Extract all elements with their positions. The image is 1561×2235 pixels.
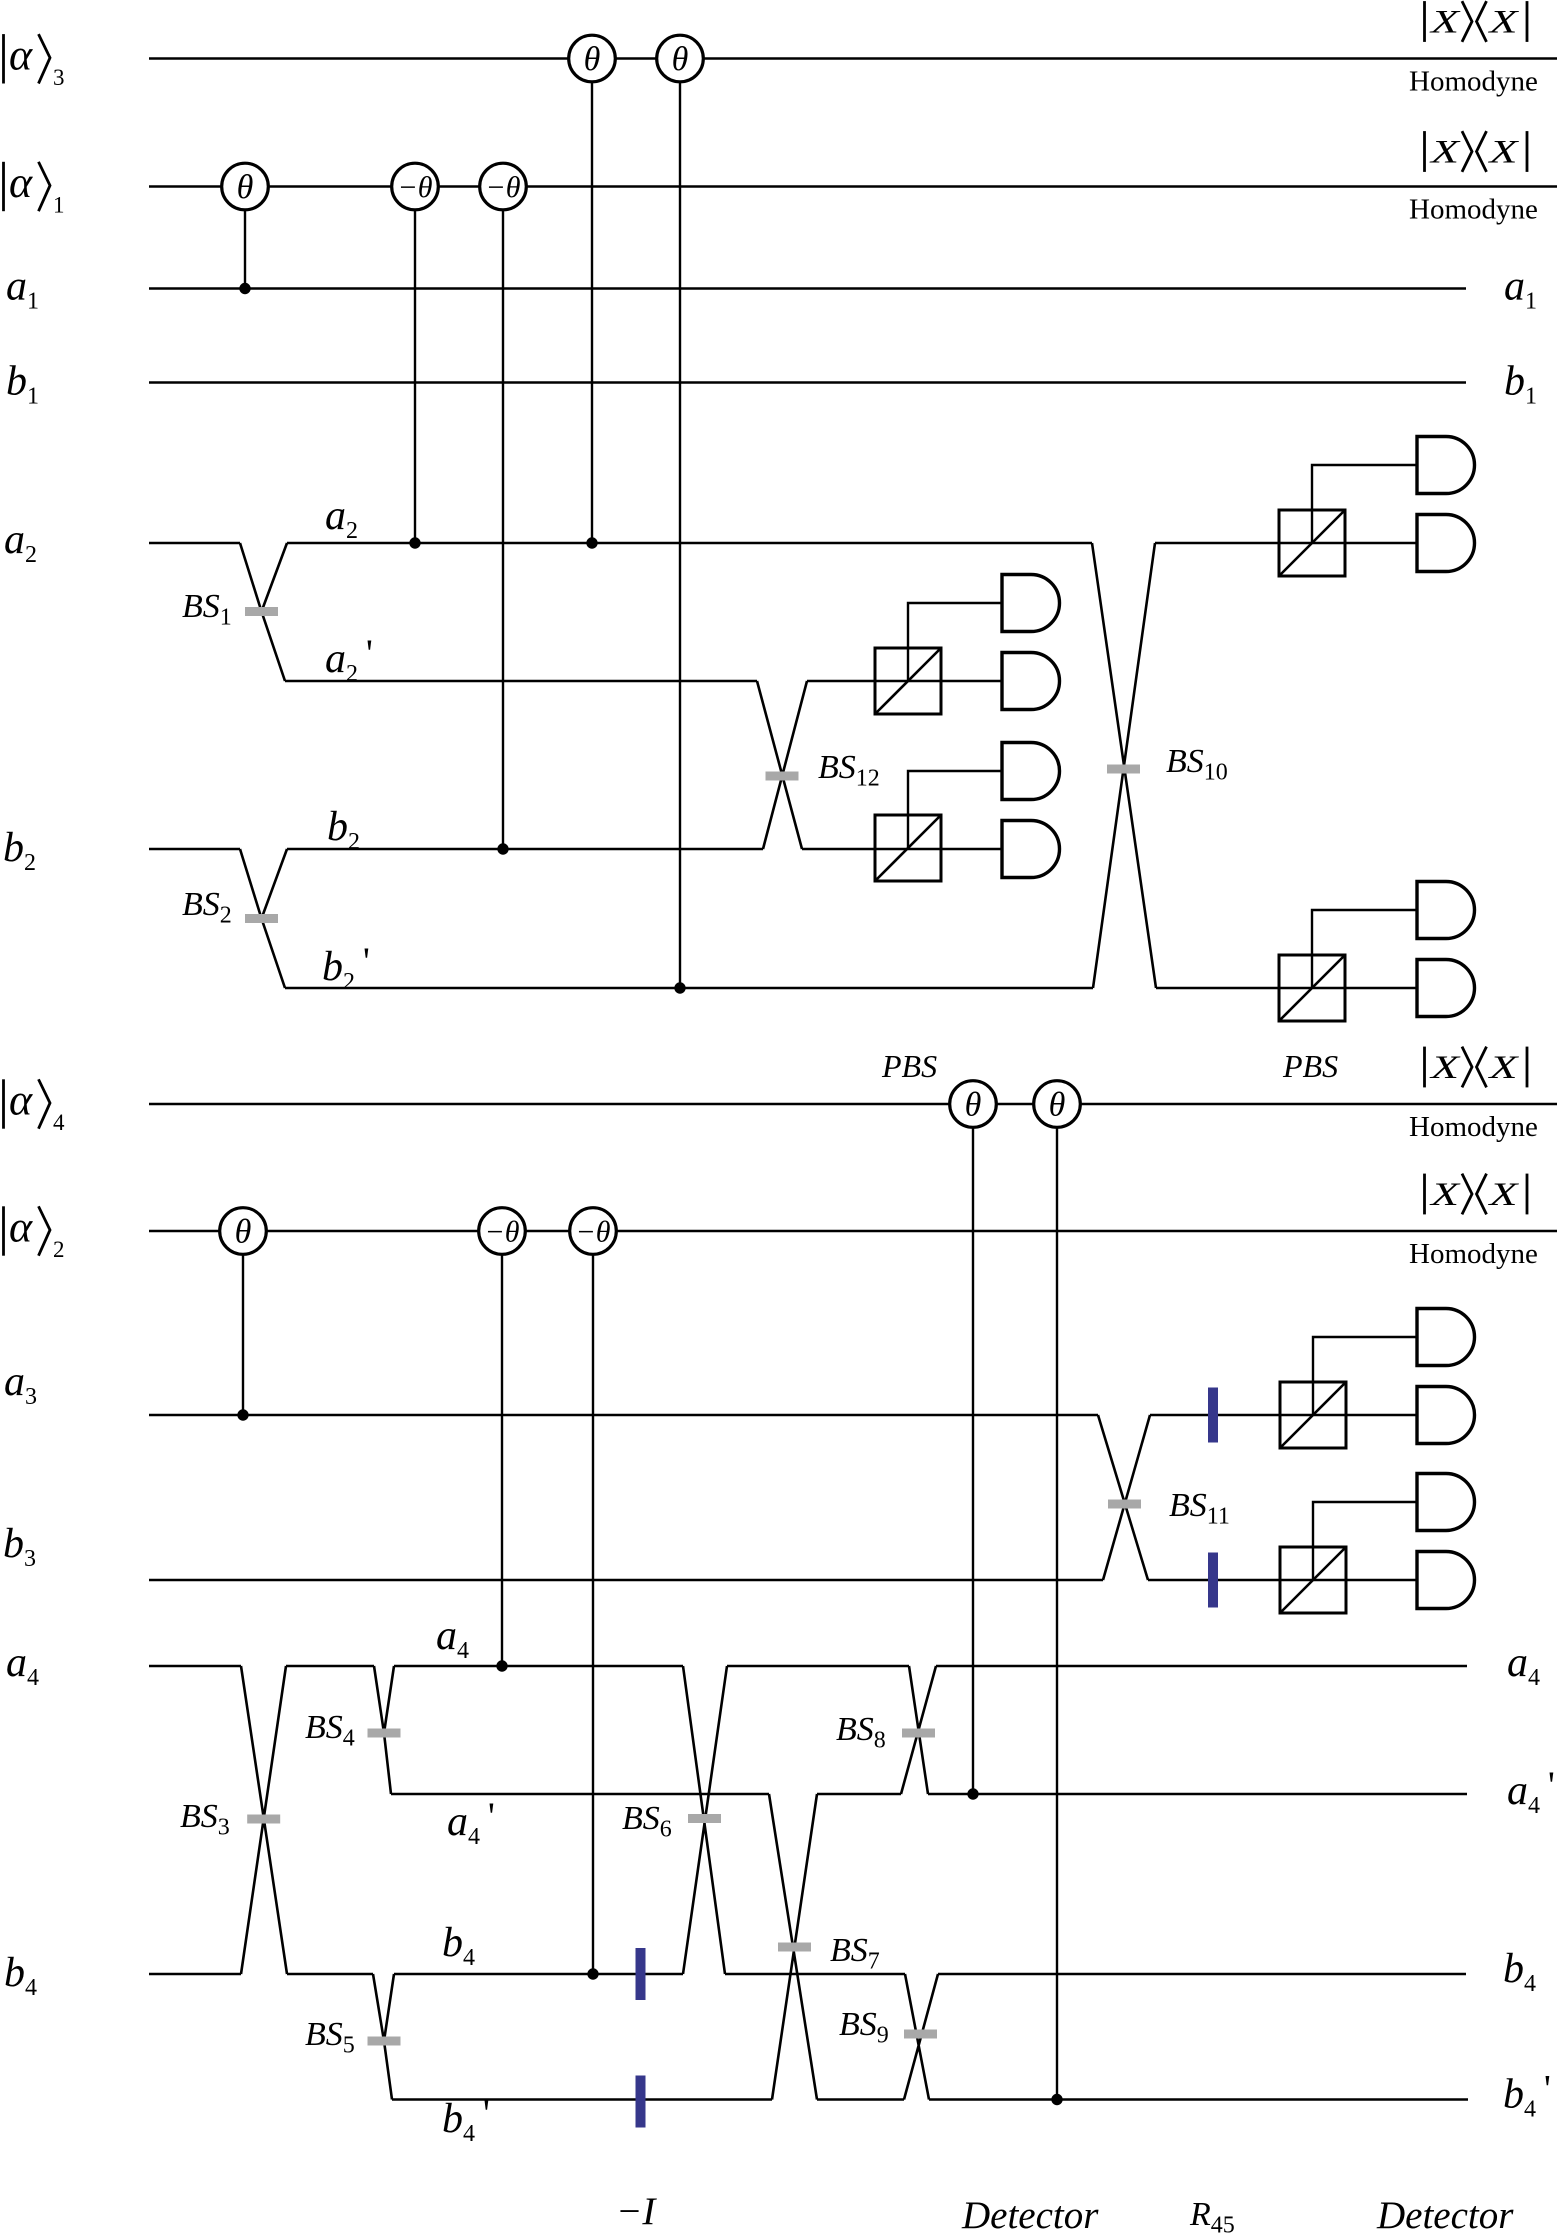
- label |X><X| (alpha1): [1425, 131, 1528, 172]
- polarizing beam splitter PBS (a2 arm): [1279, 510, 1345, 576]
- phase shifter theta on |alpha>3: [569, 35, 616, 82]
- wire mode a3: [149, 1414, 1417, 1416]
- polarizing beam splitter PBS (b2 arm): [875, 815, 941, 881]
- svg-text:θ: θ: [965, 1087, 982, 1124]
- node control dot a1: [239, 283, 250, 294]
- svg-text:Homodyne: Homodyne: [1409, 66, 1538, 98]
- detector D1: [1002, 575, 1060, 632]
- beam splitter BS11 X: [1098, 1415, 1150, 1580]
- beam splitter BS4 plate: [368, 1729, 401, 1738]
- beam splitter BS7 X: [769, 1794, 817, 2100]
- svg-text:Detector: Detector: [1376, 2194, 1514, 2235]
- wire mode b4: [149, 1973, 1466, 1975]
- wire PBS->detector: [1312, 910, 1417, 988]
- wire mode b1: [149, 381, 1466, 383]
- wire PBS->detector: [1313, 1337, 1417, 1415]
- beam splitter BS3 plate: [247, 1815, 280, 1824]
- wire control -theta->b2: [502, 210, 504, 850]
- beam splitter BS10 X: [1092, 543, 1156, 988]
- svg-text:θ: θ: [584, 41, 601, 78]
- node control dot a3: [237, 1409, 248, 1420]
- beam splitter BS12 plate: [766, 772, 799, 781]
- phase plate -I on b4: [636, 1948, 646, 2000]
- svg-text:4: 4: [53, 1110, 65, 1135]
- wire PBS->detector: [1313, 1502, 1417, 1580]
- wire PBS->detector: [908, 771, 1002, 849]
- detector D5: [1417, 437, 1475, 494]
- beam splitter BS1 plate: [245, 607, 278, 616]
- detector D7: [1417, 882, 1475, 939]
- detector D12: [1417, 1552, 1475, 1609]
- detector D11: [1417, 1474, 1475, 1531]
- svg-text:X: X: [1487, 5, 1520, 41]
- beam splitter BS5 plate: [368, 2037, 401, 2046]
- beam splitter BS6 X: [683, 1666, 727, 1974]
- svg-text:−I: −I: [616, 2190, 657, 2233]
- wire control theta->b4': [1056, 1127, 1058, 2100]
- beam splitter BS6 plate: [688, 1814, 721, 1823]
- phase shifter theta on |alpha>1: [222, 163, 269, 210]
- phase shifter theta on |alpha>4: [950, 1081, 997, 1128]
- label |alpha>3: [4, 30, 65, 90]
- svg-text:Homodyne: Homodyne: [1409, 1238, 1538, 1270]
- beam splitter BS2 plate: [245, 914, 278, 923]
- wire PBS->detector: [908, 603, 1002, 681]
- label |alpha>2: [4, 1203, 65, 1263]
- svg-text:α: α: [9, 158, 33, 207]
- phase shifter theta on |alpha>2: [220, 1208, 267, 1255]
- beam splitter BS2 arms: [240, 849, 287, 988]
- svg-text:PBS: PBS: [1282, 1048, 1338, 1084]
- node control dot a4: [496, 1660, 507, 1671]
- svg-text:Homodyne: Homodyne: [1409, 1111, 1538, 1143]
- beam splitter BS8 plate: [902, 1729, 935, 1738]
- detector D8: [1417, 960, 1475, 1017]
- svg-text:X: X: [1428, 135, 1461, 171]
- phase plate -I on b4': [636, 2076, 646, 2128]
- wire control theta->a1: [244, 210, 246, 289]
- wire mode a2: [149, 542, 1417, 544]
- wire mode b2': [285, 987, 1417, 989]
- svg-text:−θ: −θ: [485, 1216, 520, 1249]
- rotator R45 on b3 arm: [1208, 1553, 1218, 1608]
- phase shifter -theta on |alpha>2 (2nd): [570, 1208, 617, 1255]
- wire mode b2: [149, 848, 1002, 850]
- wire control -theta->b4: [592, 1254, 594, 1974]
- beam splitter BS8 X: [901, 1666, 936, 1794]
- beam splitter BS1 arms: [240, 543, 287, 681]
- node control dot b4': [1051, 2094, 1062, 2105]
- svg-text:3: 3: [53, 65, 65, 90]
- beam splitter BS3 X: [241, 1666, 287, 1974]
- svg-text:−θ: −θ: [576, 1216, 611, 1249]
- svg-text:θ: θ: [237, 169, 254, 206]
- svg-text:1: 1: [53, 193, 65, 218]
- phase shifter theta on |alpha>3 (2nd): [657, 35, 704, 82]
- wire mode a4': [391, 1793, 1467, 1795]
- svg-text:X: X: [1428, 1050, 1461, 1086]
- beam splitter BS9 plate: [904, 2030, 937, 2039]
- wire control theta->a3: [242, 1254, 244, 1415]
- label |X><X| (alpha4): [1425, 1047, 1528, 1088]
- svg-text:θ: θ: [235, 1214, 252, 1251]
- svg-text:X: X: [1487, 1050, 1520, 1086]
- label |X><X| (alpha3): [1425, 1, 1528, 42]
- wire mode b4': [392, 2098, 1468, 2100]
- node control dot a2 (-theta): [409, 537, 420, 548]
- wire control theta->a2: [591, 82, 593, 544]
- svg-text:X: X: [1487, 135, 1520, 171]
- beam splitter BS9 X: [904, 1974, 938, 2100]
- phase shifter -theta on |alpha>1: [392, 163, 439, 210]
- svg-text:−θ: −θ: [486, 171, 521, 204]
- svg-text:θ: θ: [1049, 1087, 1066, 1124]
- polarizing beam splitter PBS (b2' arm): [1279, 955, 1345, 1021]
- polarizing beam splitter PBS (a2' arm): [875, 648, 941, 714]
- node control dot b2: [497, 843, 508, 854]
- detector D6: [1417, 515, 1475, 572]
- svg-text:Detector: Detector: [961, 2194, 1099, 2235]
- node control dot b2': [674, 982, 685, 993]
- node control dot a4': [967, 1788, 978, 1799]
- detector D10: [1417, 1387, 1475, 1444]
- beam splitter BS11 plate: [1108, 1500, 1141, 1509]
- node control dot b4: [587, 1968, 598, 1979]
- rotator R45 on a3 arm: [1208, 1388, 1218, 1443]
- label |alpha>1: [4, 158, 65, 218]
- node control dot a2 (theta): [586, 537, 597, 548]
- wire mode |alpha>3: [149, 57, 1557, 59]
- svg-text:α: α: [9, 1076, 33, 1125]
- wire control -theta->a2: [414, 210, 416, 544]
- svg-text:α: α: [9, 1203, 33, 1252]
- detector D4: [1002, 821, 1060, 878]
- beam splitter BS12 X: [757, 681, 807, 849]
- detector D2: [1002, 653, 1060, 710]
- wire PBS->detector: [1312, 465, 1417, 543]
- wire control theta->b2': [679, 82, 681, 989]
- wire mode |alpha>4: [149, 1103, 1557, 1105]
- detector D3: [1002, 743, 1060, 800]
- wire control -theta->a4: [501, 1254, 503, 1666]
- svg-text:α: α: [9, 30, 33, 79]
- wire mode b3: [149, 1579, 1417, 1581]
- svg-text:PBS: PBS: [881, 1048, 937, 1084]
- phase shifter -theta on |alpha>2: [479, 1208, 526, 1255]
- beam splitter BS7 plate: [778, 1943, 811, 1952]
- wire mode a1: [149, 287, 1466, 289]
- beam splitter BS4 arms: [374, 1666, 394, 1794]
- wire mode a4: [149, 1665, 1467, 1667]
- polarizing beam splitter PBS (a3 arm): [1280, 1382, 1346, 1448]
- svg-text:2: 2: [53, 1237, 65, 1262]
- svg-text:−θ: −θ: [398, 171, 433, 204]
- wire control theta->a4': [972, 1127, 974, 1794]
- phase shifter theta on |alpha>4 (2nd): [1034, 1081, 1081, 1128]
- wire mode |alpha>1: [149, 185, 1557, 187]
- beam splitter BS10 plate: [1107, 765, 1140, 774]
- phase shifter -theta on |alpha>1 (2nd): [480, 163, 527, 210]
- svg-text:X: X: [1428, 5, 1461, 41]
- label |X><X| (alpha2): [1425, 1174, 1528, 1215]
- polarizing beam splitter PBS (b3 arm): [1280, 1547, 1346, 1613]
- svg-text:Homodyne: Homodyne: [1409, 194, 1538, 226]
- detector D9: [1417, 1309, 1475, 1366]
- beam splitter BS5 arms: [373, 1974, 394, 2100]
- wire mode |alpha>2: [149, 1230, 1557, 1232]
- wire mode a2': [285, 680, 1002, 682]
- svg-text:θ: θ: [672, 41, 689, 78]
- svg-text:X: X: [1487, 1177, 1520, 1213]
- svg-text:X: X: [1428, 1177, 1461, 1213]
- label |alpha>4: [4, 1076, 66, 1136]
